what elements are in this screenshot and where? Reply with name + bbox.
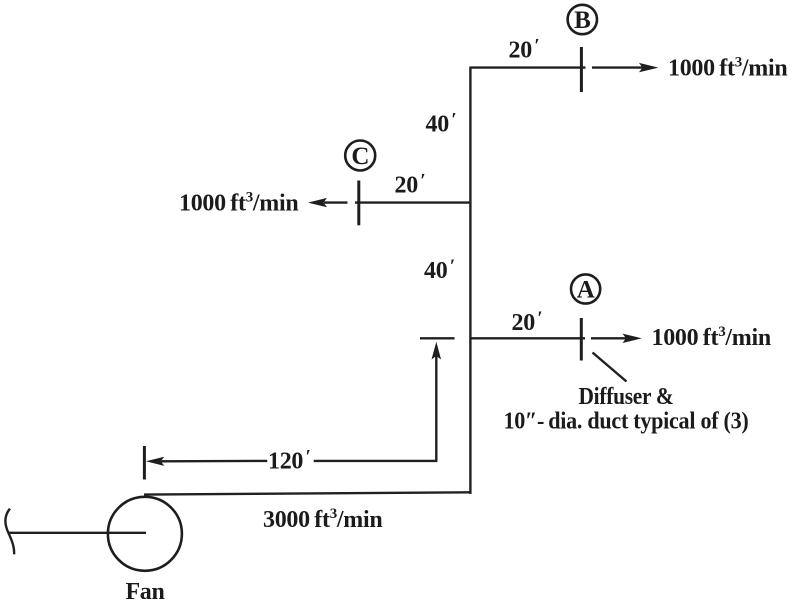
duct break mark (5, 509, 14, 555)
dimension arrow left head (146, 457, 165, 466)
svg-text:10″- dia. duct typical of (3): 10″- dia. duct typical of (3) (504, 409, 749, 435)
dimension arrow up shaft (435, 356, 437, 461)
dimension arrow up head (432, 342, 442, 360)
svg-text:Fan: Fan (125, 579, 164, 605)
fan circle (108, 497, 182, 571)
dimension tick left (143, 446, 146, 480)
svg-text:3000 ft3/min: 3000 ft3/min (263, 506, 382, 533)
flow arrow C shaft (324, 201, 348, 203)
diffuser tick B (580, 47, 583, 92)
node C circled label (345, 141, 375, 171)
svg-text:B: B (574, 7, 590, 34)
svg-text:A: A (577, 277, 595, 304)
svg-text:1000 ft3/min: 1000 ft3/min (652, 324, 771, 351)
wire trunk vertical duct (469, 68, 471, 494)
svg-text:Diffuser &: Diffuser & (579, 384, 674, 410)
wire main horizontal duct from fan (144, 492, 471, 494)
leader line to diffuser note (593, 353, 627, 382)
svg-text:1000 ft3/min: 1000 ft3/min (668, 55, 787, 82)
svg-text:C: C (351, 143, 369, 170)
wire branch A horizontal duct (469, 337, 585, 339)
flow arrow C head (308, 198, 327, 207)
svg-text:1000 ft3/min: 1000 ft3/min (179, 190, 298, 217)
wire dimension line right segment (314, 460, 438, 462)
flow arrow B head (639, 63, 659, 72)
wire dimension line left segment (161, 460, 267, 463)
diffuser tick C (357, 181, 360, 226)
wire fan inlet line (9, 532, 146, 534)
wire branch C horizontal duct (355, 201, 471, 203)
node A circled label (571, 274, 600, 303)
diffuser tick A (580, 318, 583, 361)
flow arrow B shaft (592, 66, 644, 68)
flow arrow A head (623, 334, 642, 343)
flow arrow A shaft (591, 337, 626, 339)
wire branch B horizontal duct (469, 66, 585, 68)
wire takeoff stub at trunk (420, 337, 455, 339)
node B circled label (568, 5, 597, 34)
